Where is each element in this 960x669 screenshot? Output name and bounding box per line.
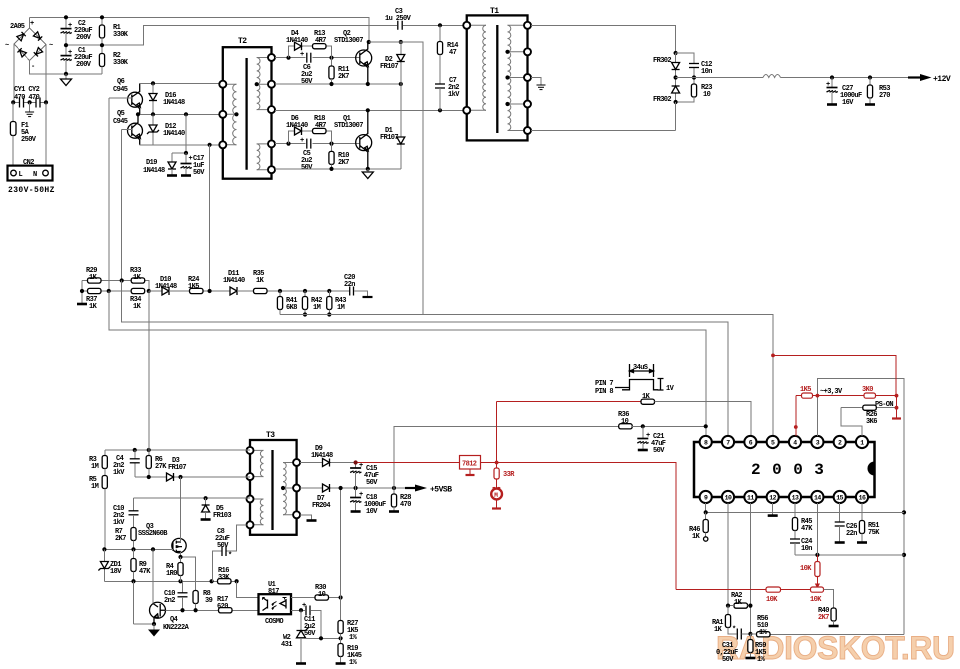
- svg-text:+: +: [646, 432, 650, 440]
- T3 pins: [247, 447, 254, 454]
- svg-text:16V: 16V: [842, 99, 854, 107]
- zener ZD1: [103, 549, 105, 581]
- svg-text:2n2: 2n2: [164, 597, 175, 605]
- svg-text:1N4148: 1N4148: [163, 99, 185, 107]
- resistor R4: [180, 557, 182, 563]
- svg-text:~: ~: [5, 42, 9, 50]
- svg-text:FR107: FR107: [380, 134, 398, 142]
- wire red standby rail: [356, 463, 676, 590]
- svg-text:10V: 10V: [366, 508, 378, 516]
- diode D4 + resistor R13: [289, 46, 332, 58]
- svg-text:10K: 10K: [800, 565, 812, 573]
- svg-text:1N4148: 1N4148: [311, 452, 333, 460]
- capacitor C27: [831, 78, 833, 88]
- svg-text:T3: T3: [266, 431, 275, 440]
- resistor R29: [82, 280, 131, 282]
- resistor R53: [869, 78, 871, 86]
- svg-text:620: 620: [217, 603, 228, 611]
- wire Q5 base feedback: [121, 130, 123, 281]
- svg-text:1N4140: 1N4140: [286, 37, 308, 45]
- svg-text:13: 13: [792, 495, 799, 502]
- wire R16 to U1: [237, 581, 259, 597]
- ground pin12: [772, 503, 774, 515]
- svg-text:Q4: Q4: [170, 616, 178, 624]
- svg-text:COSMO: COSMO: [265, 618, 283, 626]
- wire T1 pin1 to FR302: [531, 25, 676, 53]
- wire R36 feed column: [394, 426, 619, 488]
- svg-text:2K7: 2K7: [338, 159, 349, 167]
- wire U1 cathode row / C11: [291, 610, 321, 638]
- svg-text:STD13007: STD13007: [334, 122, 363, 130]
- diode D1: [400, 84, 402, 169]
- resistor R27: [338, 621, 343, 634]
- wire Q5-base row to pin7: [122, 281, 728, 437]
- capacitor C6: [307, 53, 311, 63]
- diode D6 + resistor R18: [289, 131, 332, 144]
- svg-text:FR107: FR107: [380, 63, 398, 71]
- resistor R43: [328, 291, 330, 297]
- svg-text:4R7: 4R7: [315, 122, 326, 130]
- svg-text:10K: 10K: [810, 596, 822, 604]
- wire Q3 gate rail: [104, 548, 172, 550]
- wire feedback rail to pin5: [280, 315, 773, 437]
- svg-text:47K: 47K: [139, 568, 151, 576]
- svg-text:2A05: 2A05: [10, 23, 25, 31]
- svg-text:27K: 27K: [155, 463, 167, 471]
- wire pin9 ground rail: [706, 503, 904, 512]
- svg-text:1M: 1M: [91, 483, 99, 491]
- resistor R5: [104, 469, 106, 476]
- svg-text:1N4140: 1N4140: [163, 130, 185, 138]
- wire red to ground: [896, 396, 898, 418]
- svg-text:+: +: [826, 81, 830, 89]
- diode FR302 bottom: [675, 78, 677, 103]
- capacitor C31: [737, 629, 741, 640]
- resistor R40: [824, 590, 834, 608]
- resistor R23: [693, 78, 695, 85]
- fuse F1: [12, 102, 14, 121]
- wire pin10: [727, 503, 729, 606]
- svg-text:1kV: 1kV: [113, 519, 125, 527]
- resistor R59: [749, 634, 751, 640]
- capacitor C10: [133, 498, 135, 511]
- diode D11: [230, 287, 237, 295]
- resistor R28: [393, 488, 395, 494]
- svg-text:*: *: [732, 626, 736, 634]
- wire Q2 collector rail: [367, 40, 371, 44]
- resistor R45: [794, 503, 796, 518]
- svg-text:L: L: [19, 171, 23, 179]
- svg-text:M: M: [494, 492, 498, 499]
- svg-text:PIN 8: PIN 8: [595, 388, 613, 396]
- resistor 10K horizontal (red): [676, 589, 766, 591]
- T2 right windings: [257, 58, 272, 170]
- svg-text:+: +: [68, 49, 72, 57]
- svg-text:FR107: FR107: [168, 464, 186, 472]
- svg-text:50V: 50V: [193, 169, 205, 177]
- wire R33 node down: [148, 291, 150, 477]
- wire Q1 emitter rail: [275, 168, 401, 170]
- svg-text:10n: 10n: [701, 68, 712, 76]
- svg-text:7812: 7812: [462, 461, 477, 469]
- wire +12V rail: [676, 77, 920, 79]
- wire bottom rail: [30, 61, 102, 74]
- svg-text:10: 10: [725, 495, 732, 502]
- wire Q3 drain: [180, 477, 182, 542]
- wire +5VSB sense column: [340, 488, 342, 621]
- resistor R19: [338, 644, 343, 657]
- svg-text:N: N: [33, 171, 37, 179]
- resistor R9: [133, 549, 135, 558]
- svg-text:6K8: 6K8: [286, 304, 297, 312]
- wire top rail: [30, 17, 369, 42]
- svg-text:-: -: [31, 63, 35, 71]
- wire red fan feed: [496, 402, 498, 468]
- svg-text:+: +: [302, 602, 306, 610]
- wire red pin4: [795, 396, 797, 436]
- resistor RA1: [727, 606, 729, 615]
- resistor R41: [279, 291, 281, 297]
- diode D12: [152, 114, 154, 145]
- wire U1 out to R30: [291, 597, 341, 599]
- resistor R1: [101, 17, 103, 25]
- +12V output arrow: [920, 74, 932, 81]
- wire C17 node: [172, 114, 186, 153]
- svg-text:C945: C945: [113, 118, 128, 126]
- ground T3 sec bottom: [300, 515, 312, 520]
- capacitor C10b: [182, 581, 184, 593]
- svg-text:431: 431: [281, 641, 292, 649]
- svg-text:50V: 50V: [304, 630, 316, 638]
- svg-text:200V: 200V: [76, 61, 92, 69]
- svg-text:15: 15: [836, 495, 843, 502]
- svg-text:PIN 7: PIN 7: [595, 380, 613, 388]
- wire Q5 emitter rail: [140, 144, 220, 146]
- svg-text:1M: 1M: [91, 463, 99, 471]
- svg-text:33R: 33R: [503, 471, 515, 479]
- wire FR302 return to T1 pin5: [531, 102, 676, 131]
- svg-text:18V: 18V: [110, 568, 122, 576]
- svg-text:1kV: 1kV: [448, 91, 460, 99]
- svg-text:~: ~: [49, 42, 53, 50]
- svg-text:2K7: 2K7: [115, 535, 126, 543]
- svg-text:1N4140: 1N4140: [223, 277, 245, 285]
- capacitor C3: [398, 21, 402, 30]
- svg-text:22n: 22n: [846, 530, 857, 538]
- svg-text:50V: 50V: [722, 656, 734, 664]
- svg-text:1N4148: 1N4148: [155, 283, 177, 291]
- wire pin14: [816, 503, 818, 555]
- resistor R33: [145, 281, 149, 292]
- resistor R10: [331, 144, 333, 152]
- svg-text:KN2222A: KN2222A: [163, 624, 190, 632]
- wire Q6-base row to pin8: [109, 291, 706, 436]
- svg-text:+: +: [300, 51, 304, 59]
- wire pin3 sense loop: [770, 378, 904, 634]
- ground Q4: [153, 624, 155, 630]
- svg-text:FR103: FR103: [213, 512, 231, 520]
- svg-text:250V: 250V: [21, 136, 37, 144]
- TL431 W2: [300, 610, 302, 630]
- svg-text:+5VSB: +5VSB: [430, 486, 452, 495]
- resistor R56: [750, 633, 756, 635]
- resistor R11: [331, 58, 333, 66]
- resistor 10K vertical (red): [816, 555, 818, 562]
- diode D19: [171, 153, 173, 162]
- svg-text:FR204: FR204: [312, 502, 330, 510]
- svg-text:1kV: 1kV: [113, 469, 125, 477]
- wire C10 row to T3 pin3: [134, 497, 251, 499]
- capacitor C20: [350, 287, 354, 296]
- wire TL431 ref row: [304, 637, 341, 639]
- capacitor C5: [307, 139, 311, 149]
- capacitor C26: [839, 503, 841, 522]
- wire Q4 collector row: [165, 609, 258, 611]
- svg-text:9: 9: [704, 495, 708, 502]
- svg-text:14: 14: [814, 495, 821, 502]
- svg-text:10: 10: [318, 591, 326, 599]
- svg-text:*: *: [228, 552, 232, 560]
- svg-text:470: 470: [400, 501, 411, 509]
- capacitor C12: [676, 53, 694, 78]
- svg-text:FR302: FR302: [653, 96, 671, 104]
- svg-text:47K: 47K: [801, 525, 813, 533]
- svg-text:1K5: 1K5: [188, 283, 199, 291]
- svg-text:330K: 330K: [113, 59, 129, 67]
- svg-text:1K5: 1K5: [800, 386, 811, 394]
- T1 primary winding: [467, 25, 486, 110]
- ground after bridge: [65, 74, 67, 79]
- T3 right winding: [283, 463, 297, 515]
- resistor R42: [304, 291, 306, 297]
- svg-text:47: 47: [449, 49, 457, 57]
- svg-text:4: 4: [793, 440, 797, 447]
- svg-text:50V: 50V: [301, 78, 313, 86]
- svg-text:2K7: 2K7: [818, 614, 829, 622]
- diode D7: [300, 487, 415, 489]
- capacitor C7: [435, 84, 445, 88]
- svg-text:10: 10: [703, 91, 711, 99]
- svg-text:STD13007: STD13007: [334, 37, 363, 45]
- wire mid rail to C3/T1: [66, 25, 467, 45]
- svg-text:+: +: [359, 491, 363, 499]
- svg-text:Q5: Q5: [117, 110, 125, 118]
- wire Q6 base feedback: [108, 98, 110, 291]
- svg-text:CY1 CY2: CY1 CY2: [14, 86, 40, 94]
- capacitor C15: [355, 463, 357, 468]
- resistor 1K5 (red): [796, 395, 802, 397]
- svg-text:3: 3: [816, 440, 820, 447]
- wire Q2 emitter rail: [275, 83, 401, 85]
- svg-text:6: 6: [749, 440, 753, 447]
- capacitor C24: [794, 531, 796, 540]
- wire HV to T3 pin1: [105, 449, 250, 451]
- resistor R37: [82, 281, 131, 292]
- wire source rail: [104, 580, 236, 582]
- svg-text:1M: 1M: [337, 304, 345, 312]
- svg-text:+: +: [189, 155, 193, 163]
- svg-text:10: 10: [621, 418, 629, 426]
- wire half-bridge mid rail: [275, 109, 467, 111]
- svg-text:+: +: [30, 20, 34, 28]
- resistor 1K (pin6 drive): [497, 401, 641, 403]
- fan motor M (red): [491, 489, 502, 500]
- diode D5: [205, 498, 207, 505]
- resistor R3: [104, 450, 106, 456]
- diode D16: [152, 83, 154, 114]
- diode D3: [135, 476, 250, 478]
- potentiometer 10K (red): [811, 587, 824, 592]
- wire Q4 emitter: [134, 623, 155, 625]
- svg-text:T2: T2: [238, 37, 247, 46]
- svg-text:C945: C945: [113, 86, 128, 94]
- wire T2 pin1 to Q2 base: [275, 57, 360, 59]
- svg-text:+: +: [68, 22, 72, 30]
- svg-text:50V: 50V: [301, 164, 313, 172]
- resistor R24: [169, 290, 230, 292]
- svg-text:FR302: FR302: [653, 57, 671, 65]
- resistor R46: [705, 512, 707, 519]
- capacitor C11: [306, 606, 310, 616]
- svg-text:7: 7: [726, 440, 730, 447]
- svg-text:39: 39: [205, 597, 213, 605]
- resistor R16: [218, 579, 232, 584]
- resistor R6: [146, 456, 151, 469]
- svg-text:10n: 10n: [801, 545, 812, 553]
- ground R29/R37: [81, 291, 83, 303]
- svg-text:1N4140: 1N4140: [286, 122, 308, 130]
- +5VSB arrow: [415, 485, 427, 492]
- capacitor C8: [212, 525, 246, 581]
- svg-text:34uS: 34uS: [633, 364, 648, 372]
- T1 pins: [463, 22, 470, 29]
- resistor R26 / PS-ON: [841, 408, 897, 436]
- bridge rectifier 2A05: [14, 17, 46, 102]
- svg-text:12: 12: [769, 495, 776, 502]
- resistor RA2: [734, 603, 748, 608]
- capacitor C4: [134, 450, 136, 477]
- wire Q3 source node: [181, 552, 196, 591]
- inductor L out: [763, 75, 781, 78]
- svg-text:270: 270: [879, 92, 890, 100]
- svg-text:50V: 50V: [653, 447, 665, 455]
- capacitor C21: [642, 426, 644, 438]
- svg-text:1M: 1M: [313, 304, 321, 312]
- svg-text:+: +: [300, 137, 304, 145]
- wire T2 pin4 to Q1 base: [275, 143, 360, 145]
- resistor R2: [101, 45, 103, 53]
- svg-text:8: 8: [704, 440, 708, 447]
- svg-text:~+3,3V: ~+3,3V: [820, 388, 843, 396]
- resistor R14: [438, 23, 442, 27]
- T2 pins: [219, 81, 226, 88]
- resistor R30: [315, 595, 329, 600]
- svg-text:22n: 22n: [344, 281, 355, 289]
- resistor R7: [131, 528, 136, 541]
- svg-text:3K0: 3K0: [862, 386, 873, 394]
- svg-text:1u 250V: 1u 250V: [385, 15, 412, 23]
- svg-text:3K6: 3K6: [866, 418, 877, 426]
- svg-text:2K7: 2K7: [338, 73, 349, 81]
- wire D11 column: [209, 145, 211, 291]
- ground T1 center tap: [531, 78, 541, 86]
- wire Q6 collector rail: [140, 82, 220, 84]
- svg-text:Q6: Q6: [117, 78, 125, 86]
- T3 left windings: [250, 450, 264, 524]
- diode D10: [149, 290, 162, 292]
- diode D9: [300, 462, 356, 464]
- ground Q1 emitter: [367, 169, 369, 172]
- resistor R17: [219, 608, 233, 613]
- svg-text:D19: D19: [146, 159, 157, 167]
- T1 secondary windings: [508, 25, 528, 130]
- svg-text:PS-ON: PS-ON: [875, 401, 893, 409]
- resistor 33R (red): [494, 468, 499, 479]
- svg-text:16: 16: [859, 495, 866, 502]
- resistor R51: [861, 503, 863, 521]
- wire pin11: [749, 503, 751, 634]
- svg-text:33K: 33K: [218, 574, 230, 582]
- wire feedback from D1/D2 rail: [369, 42, 423, 315]
- capacitor C2: [65, 17, 67, 28]
- svg-text:2: 2: [838, 440, 842, 447]
- svg-text:4R7: 4R7: [315, 37, 326, 45]
- resistor R35: [237, 290, 349, 292]
- svg-text:1R0: 1R0: [166, 570, 177, 578]
- svg-text:10K: 10K: [766, 596, 778, 604]
- svg-text:2003: 2003: [751, 461, 835, 479]
- svg-text:75K: 75K: [868, 529, 880, 537]
- resistor 3K0 (red): [864, 393, 876, 398]
- T2 left winding: [223, 84, 237, 145]
- svg-text:11: 11: [747, 495, 754, 502]
- capacitor C18: [355, 488, 357, 497]
- svg-text:200V: 200V: [76, 34, 92, 42]
- wire red tap from pin5 net: [773, 355, 896, 395]
- wire mid rail Q5/Q6: [138, 113, 219, 115]
- resistor R34: [131, 288, 145, 293]
- resistor R8: [193, 591, 198, 604]
- diode FR302 top: [675, 53, 677, 78]
- wire pin13/14 row: [795, 554, 904, 556]
- svg-text:50V: 50V: [366, 479, 378, 487]
- svg-text:330K: 330K: [113, 31, 129, 39]
- diode D2: [400, 42, 402, 84]
- node dots primary: [64, 15, 68, 19]
- svg-text:1: 1: [860, 440, 864, 447]
- regulator 7812 (red): [460, 456, 481, 470]
- resistor R36: [619, 424, 633, 429]
- svg-text:+12V: +12V: [933, 75, 951, 84]
- svg-text:50V: 50V: [217, 542, 229, 550]
- svg-text:1N4148: 1N4148: [143, 167, 165, 175]
- capacitor C17: [185, 153, 187, 163]
- svg-text:230V-50HZ: 230V-50HZ: [8, 186, 55, 195]
- svg-text:SSS2N60B: SSS2N60B: [138, 530, 168, 538]
- capacitor C1: [65, 45, 67, 55]
- svg-text:+: +: [359, 462, 363, 470]
- svg-text:5: 5: [771, 440, 775, 447]
